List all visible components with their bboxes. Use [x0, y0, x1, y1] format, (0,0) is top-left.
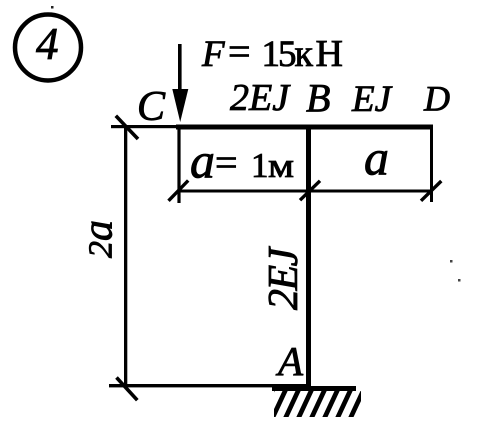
svg-text:=: =: [215, 140, 238, 185]
scan speckles: [51, 6, 54, 9]
tick at D on dimension line: [421, 181, 441, 201]
tick at B on dimension line: [300, 181, 320, 200]
svg-text:1: 1: [251, 146, 269, 185]
beam C-B-D: [176, 125, 433, 130]
column B-A: [306, 127, 311, 388]
svg-text:B: B: [306, 76, 330, 121]
base line at bottom: [109, 384, 310, 387]
support hatching: [259, 389, 364, 419]
wire: thin extension line left of C: [111, 125, 178, 128]
force arrow F shaft: [178, 44, 182, 94]
extension line below D: [430, 129, 433, 202]
svg-text:2EJ: 2EJ: [230, 77, 291, 119]
svg-text:F=15кН: F=15кН: [201, 29, 345, 75]
svg-text:A: A: [275, 338, 304, 384]
left dimension vertical line 2a: [124, 127, 127, 386]
svg-text:C: C: [137, 84, 166, 130]
svg-text:D: D: [423, 79, 450, 119]
force arrow head: [172, 89, 188, 122]
problem number circle: [15, 15, 81, 81]
svg-text:EJ: EJ: [351, 79, 393, 120]
svg-text:a: a: [190, 133, 215, 189]
svg-text:a: a: [364, 130, 389, 186]
tick at top of 2a line: [116, 116, 138, 139]
extension line below C: [177, 129, 180, 203]
tick at bottom of 2a line: [117, 378, 138, 401]
support top bar: [272, 386, 356, 391]
dimension line a (C-B-D): [178, 190, 432, 193]
svg-text:2a: 2a: [76, 220, 122, 258]
tick at C on dimension line: [169, 181, 189, 201]
svg-text:м: м: [268, 146, 294, 185]
svg-text:2EJ: 2EJ: [261, 245, 307, 310]
svg-text:4: 4: [36, 19, 59, 69]
